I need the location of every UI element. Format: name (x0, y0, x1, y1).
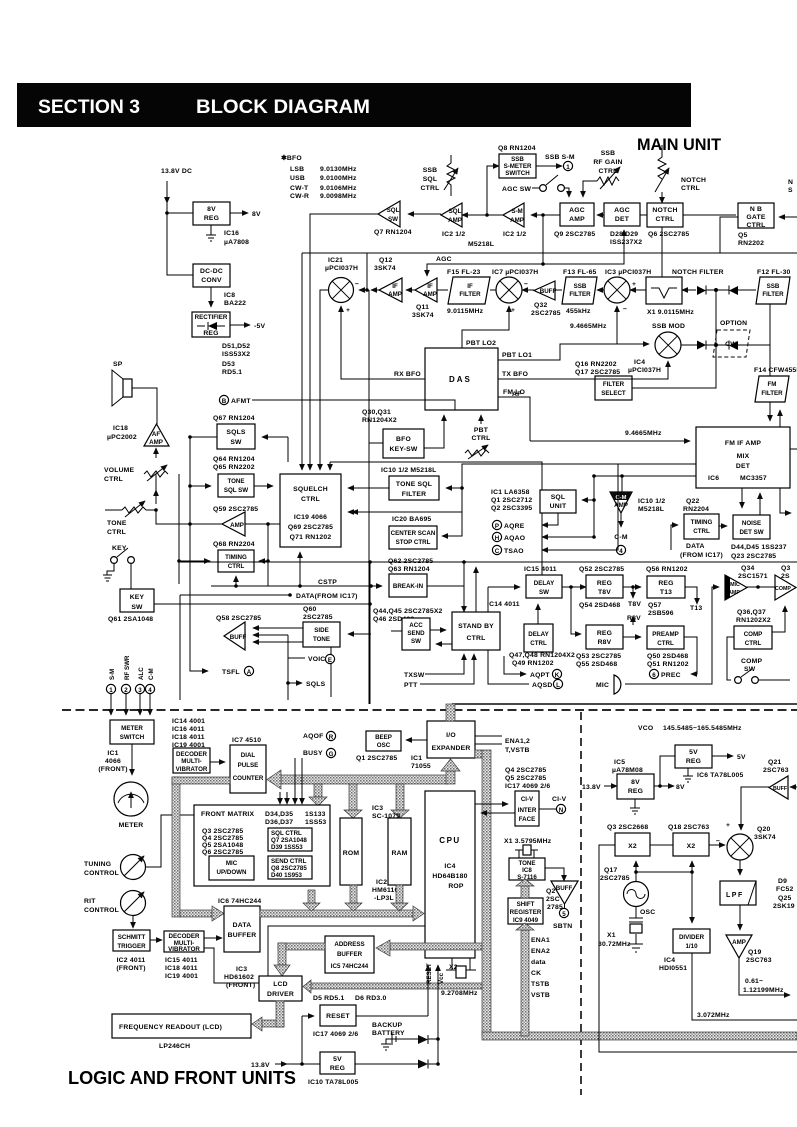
svg-text:Q16 RN2202: Q16 RN2202 (575, 361, 617, 368)
svg-text:A: A (247, 669, 252, 676)
expander I/O EXPANDER IC1 (427, 721, 475, 758)
svg-text:RN1202X2: RN1202X2 (736, 617, 771, 624)
reset RESET IC17 (320, 1005, 356, 1026)
svg-text:9.0098MHz: 9.0098MHz (320, 193, 357, 200)
svg-text:CONTROL: CONTROL (84, 870, 119, 877)
svg-text:BUFF: BUFF (230, 634, 247, 641)
port 6 PREC (684, 637, 697, 674)
svg-text:C-M: C-M (616, 495, 627, 501)
regulator 8V REG (193, 202, 230, 225)
svg-text:Q1 2SC2712: Q1 2SC2712 (491, 497, 532, 504)
buffer ADDRESS BUFFER IC5 (325, 936, 374, 973)
svg-text:2SC2785: 2SC2785 (600, 875, 630, 882)
svg-text:D44,D45 1SS237: D44,D45 1SS237 (731, 544, 787, 551)
svg-text:LP246CH: LP246CH (159, 1043, 190, 1050)
bus counter to matrix rail (281, 775, 448, 784)
svg-text:BEEP: BEEP (375, 734, 392, 741)
svg-text:SIDE: SIDE (314, 627, 328, 634)
svg-text:FRONT MATRIX: FRONT MATRIX (201, 811, 255, 818)
gate N B GATE CTRL Q5 (738, 203, 774, 228)
svg-text:13.8V: 13.8V (582, 784, 601, 791)
svg-text:3.072MHz: 3.072MHz (697, 1012, 730, 1019)
svg-text:MIC: MIC (226, 860, 238, 867)
svg-text:Q8 RN1204: Q8 RN1204 (498, 145, 536, 152)
svg-text:SSB: SSB (511, 156, 524, 163)
svg-text:PREC: PREC (661, 672, 681, 679)
svg-text:STOP CTRL: STOP CTRL (396, 539, 431, 546)
svg-text:CTRL: CTRL (472, 435, 491, 442)
port N CI-V jack (556, 804, 565, 813)
matrix FRONT MATRIX (194, 805, 330, 886)
svg-text:1: 1 (109, 687, 113, 694)
svg-text:REG: REG (204, 215, 219, 222)
svg-text:DATA: DATA (686, 543, 705, 550)
svg-text:TXSW: TXSW (404, 672, 425, 679)
svg-text:µPCI037H: µPCI037H (628, 367, 661, 374)
svg-text:IF: IF (467, 283, 473, 290)
svg-text:IC10 1/2: IC10 1/2 (638, 498, 665, 505)
svg-text:3: 3 (138, 687, 142, 694)
svg-text:1S133: 1S133 (305, 811, 326, 818)
diode pair mod switch (681, 344, 770, 346)
node S-meter tap (485, 213, 489, 217)
svg-text:9.0130MHz: 9.0130MHz (320, 166, 357, 173)
svg-text:AMP: AMP (569, 216, 585, 223)
svg-text:REG: REG (658, 580, 673, 587)
svg-text:Q65 RN2202: Q65 RN2202 (213, 464, 255, 471)
svg-text:F15 FL-23: F15 FL-23 (447, 269, 481, 276)
boundary dashed main/logic (62, 709, 797, 711)
svg-text:SQL SW: SQL SW (224, 487, 248, 494)
svg-text:FILTER: FILTER (761, 390, 783, 397)
svg-text:0.61~: 0.61~ (745, 978, 763, 985)
svg-text:FREQUENCY READOUT (LCD): FREQUENCY READOUT (LCD) (119, 1024, 222, 1031)
svg-text:VOIC: VOIC (308, 656, 325, 663)
svg-text:2SC763: 2SC763 (746, 957, 772, 964)
wire notch ctrl to notch filter (661, 227, 663, 277)
svg-text:MIC: MIC (730, 582, 740, 588)
svg-text:HM6116: HM6116 (372, 887, 399, 894)
svg-text:IC8: IC8 (522, 867, 532, 874)
svg-text:IC5 74HC244: IC5 74HC244 (331, 963, 369, 970)
svg-text:RN2202: RN2202 (738, 240, 764, 247)
svg-text:SWITCH: SWITCH (120, 734, 145, 741)
svg-text:BUFFER: BUFFER (337, 951, 363, 958)
svg-text:NOTCH: NOTCH (652, 207, 677, 214)
svg-text:IC4: IC4 (634, 359, 645, 366)
svg-text:T,VSTB: T,VSTB (505, 747, 530, 754)
svg-text:Q9 2SC2785: Q9 2SC2785 (554, 231, 595, 238)
svg-text:AF: AF (152, 431, 160, 438)
svg-text:R8V: R8V (627, 615, 641, 622)
svg-text:SSB: SSB (574, 283, 587, 290)
port AQPT K (504, 656, 526, 674)
svg-text:DET: DET (736, 463, 751, 470)
svg-text:Q44,Q45 2SC2785X2: Q44,Q45 2SC2785X2 (373, 608, 443, 615)
svg-text:2SC1571: 2SC1571 (738, 573, 768, 580)
svg-text:Q51 RN1202: Q51 RN1202 (647, 661, 689, 668)
svg-text:RN2204: RN2204 (683, 506, 709, 513)
svg-text:IC17 4069 2/6: IC17 4069 2/6 (313, 1031, 358, 1038)
svg-text:IC7 µPCI037H: IC7 µPCI037H (492, 269, 538, 276)
svg-text:SSB MOD: SSB MOD (652, 323, 685, 330)
svg-text:Q7 2SA1048: Q7 2SA1048 (271, 837, 307, 844)
svg-text:Q36,Q37: Q36,Q37 (737, 609, 766, 616)
svg-text:6: 6 (652, 672, 656, 679)
svg-text:IF: IF (427, 283, 433, 290)
svg-text:Q53 2SC2785: Q53 2SC2785 (576, 653, 621, 660)
svg-text:MULTI-: MULTI- (181, 758, 202, 765)
svg-text:Q4 2SC2785: Q4 2SC2785 (505, 767, 546, 774)
amp AGC AMP Q9 (560, 203, 594, 226)
header black bar (17, 83, 691, 127)
svg-text:2SC2785: 2SC2785 (531, 310, 561, 317)
svg-text:C-M: C-M (614, 534, 628, 541)
svg-text:AQRE: AQRE (504, 523, 525, 530)
svg-text:9.2708MHz: 9.2708MHz (441, 990, 478, 997)
svg-text:R8V: R8V (598, 639, 612, 646)
port AQSD L (488, 650, 529, 684)
svg-text:IC6 TA78L005: IC6 TA78L005 (697, 772, 743, 779)
svg-text:71055: 71055 (411, 763, 431, 770)
svg-text:FILTER: FILTER (762, 291, 784, 298)
svg-text:KEY: KEY (130, 594, 145, 601)
wires counter to matrix (279, 792, 281, 804)
svg-text:IC6 74HC244: IC6 74HC244 (218, 898, 261, 905)
svg-text:DET: DET (615, 216, 630, 223)
svg-text:IC16 4011: IC16 4011 (172, 726, 205, 733)
svg-text:Q57: Q57 (648, 602, 661, 609)
svg-text:CTRL: CTRL (656, 216, 675, 223)
svg-text:Q47,Q48 RN1204X2: Q47,Q48 RN1204X2 (509, 652, 575, 659)
svg-text:CTRL: CTRL (657, 640, 674, 647)
svg-text:IC1: IC1 (107, 750, 118, 757)
svg-text:Q8 2SC2785: Q8 2SC2785 (271, 865, 307, 872)
port H AQAO (592, 535, 596, 539)
svg-text:TSTB: TSTB (531, 981, 550, 988)
svg-text:CW: CW (725, 341, 737, 348)
svg-text:NOTCH FILTER: NOTCH FILTER (672, 269, 724, 276)
svg-text:REG: REG (330, 1065, 345, 1072)
svg-text:AMP: AMP (732, 939, 746, 946)
svg-text:N: N (559, 807, 564, 814)
svg-text:IC4: IC4 (664, 957, 675, 964)
controller SQUELCH CTRL (280, 474, 341, 547)
svg-text:CTRL: CTRL (301, 496, 320, 503)
svg-text:SEND CTRL: SEND CTRL (271, 858, 307, 865)
port C TSAO (542, 464, 618, 550)
svg-text:Q69 2SC2785: Q69 2SC2785 (288, 524, 333, 531)
svg-text:RF SWR: RF SWR (124, 655, 131, 680)
svg-text:Q7 RN1204: Q7 RN1204 (374, 229, 412, 236)
wire squelch feed y462 (330, 462, 542, 575)
svg-text:Q17: Q17 (604, 867, 617, 874)
svg-text:P: P (495, 523, 499, 530)
svg-text:IC2 1/2: IC2 1/2 (503, 231, 526, 238)
port B AFMT (219, 395, 228, 404)
svg-text:FC52: FC52 (776, 886, 793, 893)
svg-text:SQUELCH: SQUELCH (293, 486, 328, 493)
svg-text:S-7116: S-7116 (517, 874, 537, 881)
wire PBT LO2 (462, 306, 509, 348)
wire F12 to FM filter column (769, 304, 771, 376)
svg-text:Q52 2SC2785: Q52 2SC2785 (579, 566, 624, 573)
svg-text:IC21: IC21 (328, 257, 343, 264)
svg-text:CTRL: CTRL (681, 185, 700, 192)
svg-text:+: + (346, 307, 350, 314)
svg-text:ISS237X2: ISS237X2 (610, 239, 642, 246)
svg-text:ACC: ACC (409, 622, 423, 629)
svg-text:BA222: BA222 (224, 300, 246, 307)
svg-text:(FRONT): (FRONT) (226, 982, 255, 989)
divider DIVIDER 1/10 IC4 (691, 872, 693, 923)
svg-text:Q5: Q5 (738, 232, 747, 239)
svg-text:SSB: SSB (423, 167, 438, 174)
ground IC16 (206, 225, 216, 241)
svg-text:+: + (632, 281, 636, 288)
svg-text:DELAY: DELAY (528, 631, 549, 638)
svg-text:D53: D53 (222, 361, 235, 368)
svg-text:SCHMITT: SCHMITT (118, 934, 146, 941)
wire FM audio out (352, 464, 696, 512)
svg-text:OPTION: OPTION (720, 320, 747, 327)
svg-text:Q30,Q31: Q30,Q31 (362, 409, 391, 416)
svg-text:PTT: PTT (404, 682, 418, 689)
svg-text:COUNTER: COUNTER (233, 775, 264, 782)
svg-text:FILTER: FILTER (459, 291, 481, 298)
svg-text:TSAO: TSAO (504, 548, 524, 555)
svg-text:D40 1S953: D40 1S953 (271, 872, 303, 879)
svg-text:Q5 2SC2785: Q5 2SC2785 (505, 775, 546, 782)
svg-text:METER: METER (119, 822, 144, 829)
svg-text:Q64 RN1204: Q64 RN1204 (213, 456, 255, 463)
wire long net y253 (302, 252, 720, 254)
svg-text:CW-T: CW-T (290, 185, 309, 192)
wire long vertical from mixer node (366, 253, 368, 290)
svg-text:CONTROL: CONTROL (84, 907, 119, 914)
detector AGC DET (604, 203, 640, 226)
svg-text:Q56 RN1202: Q56 RN1202 (646, 566, 688, 573)
svg-text:SQLS: SQLS (226, 429, 246, 436)
controller DAS (425, 348, 498, 410)
svg-text:13.8V: 13.8V (251, 1062, 270, 1069)
svg-text:B: B (222, 398, 227, 405)
svg-text:D51,D52: D51,D52 (222, 343, 250, 350)
svg-text:Q49 RN1202: Q49 RN1202 (512, 660, 554, 667)
oscillator BEEP OSC Q1 (366, 731, 401, 751)
svg-text:CK: CK (531, 970, 541, 977)
svg-text:8V: 8V (631, 779, 640, 786)
port 5 SBTN (559, 908, 568, 917)
decoder DECODER MULTI-VIBRATOR 2 (164, 931, 204, 952)
svg-text:BUFF: BUFF (773, 786, 788, 792)
svg-text:1/10: 1/10 (685, 943, 698, 950)
svg-text:2SK19: 2SK19 (773, 903, 795, 910)
regulator 5V REG PLL (675, 745, 712, 768)
svg-text:TUNING: TUNING (84, 861, 111, 868)
svg-text:5V: 5V (737, 754, 746, 761)
svg-text:IC19 4001: IC19 4001 (165, 973, 198, 980)
svg-text:CTRL: CTRL (467, 635, 486, 642)
svg-text:IC20 BA695: IC20 BA695 (392, 516, 431, 523)
svg-text:M5218L: M5218L (468, 241, 494, 248)
bus lcd feed thin (311, 983, 482, 989)
svg-text:IC4: IC4 (444, 863, 455, 870)
svg-text:AQSD: AQSD (532, 682, 552, 689)
svg-text:Q11: Q11 (416, 304, 429, 311)
diode D5 (418, 1035, 428, 1044)
svg-text:TSFL: TSFL (222, 669, 240, 676)
svg-text:INTER: INTER (518, 807, 537, 814)
svg-text:D6 RD3.0: D6 RD3.0 (355, 995, 386, 1002)
svg-text:Q59 2SC2785: Q59 2SC2785 (213, 506, 258, 513)
svg-text:PBT LO2: PBT LO2 (466, 340, 496, 347)
svg-text:FM: FM (768, 381, 777, 388)
svg-text:IC18: IC18 (113, 425, 128, 432)
wire diode control (715, 290, 717, 345)
selector FILTER SELECT (595, 376, 632, 400)
bus branch ROM (349, 784, 357, 810)
svg-text:AMP: AMP (230, 522, 244, 529)
svg-text:VCO: VCO (638, 725, 653, 732)
svg-text:4: 4 (619, 548, 623, 555)
svg-text:X1: X1 (607, 932, 616, 939)
svg-text:SW: SW (388, 216, 398, 223)
svg-text:IC3: IC3 (236, 966, 247, 973)
svg-text:ENA1: ENA1 (531, 937, 550, 944)
switch BFO KEY-SW (383, 429, 424, 458)
svg-text:Q21: Q21 (768, 759, 781, 766)
svg-text:ALC: ALC (138, 667, 145, 680)
svg-text:µA78M08: µA78M08 (612, 767, 643, 774)
svg-text:SW: SW (539, 589, 549, 596)
svg-text:IC18 4011: IC18 4011 (172, 734, 205, 741)
svg-text:1: 1 (566, 164, 570, 171)
svg-text:SQL: SQL (449, 208, 462, 215)
svg-text:USB: USB (290, 175, 305, 182)
svg-text:Q58 2SC2785: Q58 2SC2785 (216, 615, 261, 622)
svg-text:RESET: RESET (426, 963, 433, 984)
svg-text:IC16: IC16 (224, 230, 239, 237)
svg-text:IC2 4011: IC2 4011 (117, 957, 146, 964)
svg-text:Q17 2SC2785: Q17 2SC2785 (575, 369, 620, 376)
svg-text:Q5 2SA1048: Q5 2SA1048 (202, 842, 243, 849)
bus right vertical (482, 750, 491, 1036)
svg-text:(FRONT): (FRONT) (98, 766, 127, 773)
bus riser to IO expander (446, 770, 455, 784)
svg-text:X1 9.0115MHz: X1 9.0115MHz (647, 309, 694, 316)
svg-text:2SC: 2SC (546, 896, 560, 903)
svg-text:IF: IF (392, 283, 398, 290)
svg-text:FILTER: FILTER (402, 491, 426, 498)
svg-text:CI-V: CI-V (521, 796, 534, 803)
svg-text:FILTER: FILTER (569, 291, 591, 298)
bus matrix out (308, 890, 315, 904)
bus branch matrix (314, 784, 322, 797)
svg-text:IC10 1/2 M5218L: IC10 1/2 M5218L (381, 467, 437, 474)
svg-text:FM IF AMP: FM IF AMP (725, 440, 762, 447)
buffer Q32 BUFF (534, 281, 555, 300)
svg-text:2SC763: 2SC763 (763, 767, 789, 774)
svg-text:FACE: FACE (519, 816, 536, 823)
svg-text:1.12199MHz: 1.12199MHz (743, 987, 784, 994)
svg-text:DELAY: DELAY (534, 580, 555, 587)
svg-text:PBT LO1: PBT LO1 (502, 352, 532, 359)
svg-text:Q2 2SC3395: Q2 2SC3395 (491, 505, 532, 512)
wire standby rail y562 (180, 561, 797, 563)
subswitch SEND CTRL (268, 856, 312, 879)
svg-text:145.5485~165.5485MHz: 145.5485~165.5485MHz (663, 725, 742, 732)
subswitch SQL CTRL (268, 828, 312, 851)
svg-text:CTRL: CTRL (599, 168, 618, 175)
svg-text:ISS53X2: ISS53X2 (222, 351, 250, 358)
svg-text:8V: 8V (252, 211, 261, 218)
svg-text:RESET: RESET (326, 1013, 350, 1020)
svg-text:CTRL: CTRL (747, 222, 766, 229)
switch NOISE DET SW (733, 515, 770, 539)
svg-text:I/O: I/O (446, 732, 456, 739)
svg-text:BLOCK DIAGRAM: BLOCK DIAGRAM (196, 97, 370, 118)
svg-text:RAM: RAM (391, 850, 407, 857)
svg-text:RX BFO: RX BFO (394, 371, 421, 378)
svg-text:SBTN: SBTN (553, 923, 572, 930)
svg-text:SP: SP (113, 361, 123, 368)
svg-text:VIBRATOR: VIBRATOR (176, 766, 208, 773)
svg-text:DECODER: DECODER (169, 933, 200, 940)
svg-text:SQL: SQL (387, 207, 400, 214)
svg-text:EXPANDER: EXPANDER (432, 745, 471, 752)
svg-text:AGC SW: AGC SW (502, 186, 532, 193)
svg-text:VIBRATOR: VIBRATOR (168, 946, 200, 953)
amp Q19 AMP (739, 905, 741, 930)
svg-text:S-M: S-M (511, 208, 522, 215)
register SHIFT REGISTER IC9 (508, 898, 543, 924)
svg-text:BREAK-IN: BREAK-IN (393, 583, 424, 590)
wire 30.72 ref out (596, 931, 598, 933)
svg-text:AGC: AGC (614, 207, 630, 214)
svg-text:SHIFT: SHIFT (517, 901, 535, 908)
svg-text:IC10 TA78L005: IC10 TA78L005 (308, 1079, 358, 1086)
svg-text:9.0106MHz: 9.0106MHz (320, 185, 357, 192)
svg-text:SQL: SQL (551, 494, 566, 501)
bus address to lcd (278, 943, 325, 950)
svg-text:AQPT: AQPT (530, 672, 550, 679)
svg-text:DATA(FROM IC17): DATA(FROM IC17) (296, 593, 358, 600)
svg-text:DRIVER: DRIVER (267, 991, 294, 998)
svg-text:5V: 5V (689, 749, 698, 756)
svg-text:REG: REG (686, 758, 701, 765)
svg-text:8V: 8V (676, 784, 685, 791)
svg-text:Q19: Q19 (748, 949, 761, 956)
transistor Q7 SQL SW buffer (378, 201, 400, 227)
rectifier REG -5V (192, 312, 230, 337)
svg-text:IC2: IC2 (376, 879, 387, 886)
svg-text:LPF: LPF (726, 892, 744, 899)
svg-text:F13 FL-65: F13 FL-65 (563, 269, 597, 276)
svg-text:2: 2 (124, 687, 128, 694)
svg-text:LOGIC AND FRONT UNITS: LOGIC AND FRONT UNITS (68, 1068, 296, 1088)
svg-text:COMP: COMP (741, 658, 762, 665)
svg-text:Q1 2SC2785: Q1 2SC2785 (356, 755, 397, 762)
svg-text:9.0115MHz: 9.0115MHz (447, 308, 484, 315)
bus lcd to readout (262, 1020, 284, 1027)
svg-text:2SC2785: 2SC2785 (303, 614, 333, 621)
svg-text:ADDRESS: ADDRESS (334, 941, 364, 948)
svg-text:D36,D37: D36,D37 (265, 819, 293, 826)
svg-text:S: S (788, 187, 793, 194)
svg-text:AMP: AMP (423, 291, 437, 298)
svg-text:GATE: GATE (746, 214, 765, 221)
